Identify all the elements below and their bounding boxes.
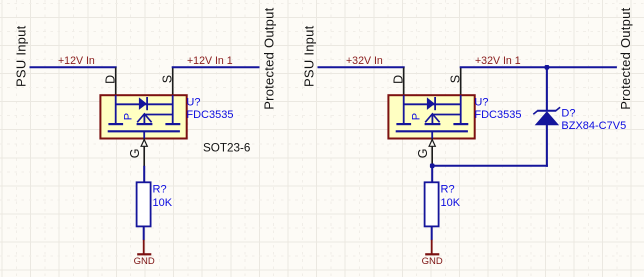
wire zener anode down — [546, 125, 548, 167]
pin G of U? — [128, 139, 147, 167]
transistor U? FDC3535 (P-channel MOSFET, yellow body) — [388, 95, 474, 138]
svg-text:P: P — [411, 113, 423, 120]
svg-text:Protected Output: Protected Output — [618, 7, 633, 109]
svg-text:+12V In 1: +12V In 1 — [187, 55, 233, 67]
junction node on +32V In 1 net — [545, 65, 550, 70]
svg-text:S: S — [160, 75, 174, 83]
ground GND power port — [134, 240, 155, 267]
ground GND power port — [422, 240, 443, 267]
resistor R? — [425, 182, 439, 226]
svg-text:U?: U? — [186, 96, 200, 108]
wire +12V In net — [30, 66, 117, 68]
svg-text:D?: D? — [561, 107, 575, 119]
svg-text:S: S — [448, 75, 462, 83]
svg-text:U?: U? — [474, 96, 488, 108]
wire gate to resistor — [431, 166, 433, 183]
svg-text:D: D — [391, 75, 405, 84]
wire +12V In 1 net — [172, 66, 260, 68]
svg-text:GND: GND — [422, 256, 443, 267]
pin D of U? — [391, 68, 405, 96]
junction node at gate of U? — [430, 164, 435, 169]
svg-text:Protected Output: Protected Output — [262, 7, 277, 109]
svg-text:FDC3535: FDC3535 — [186, 109, 233, 121]
svg-text:10K: 10K — [441, 197, 461, 209]
svg-text:+32V In 1: +32V In 1 — [475, 55, 521, 67]
wire +32V In net — [318, 66, 405, 68]
wire junction to zener cathode — [546, 67, 548, 111]
wire resistor to GND — [431, 226, 433, 240]
wire zener to gate node — [432, 165, 548, 167]
wire resistor to GND — [143, 226, 145, 240]
wire gate to resistor — [143, 166, 145, 183]
svg-text:G: G — [128, 149, 142, 159]
svg-text:P: P — [123, 113, 135, 120]
svg-text:D: D — [103, 75, 117, 84]
svg-text:BZX84-C7V5: BZX84-C7V5 — [561, 120, 626, 132]
svg-text:+12V In: +12V In — [58, 55, 95, 67]
diode D? BZX84-C7V5 (zener) — [533, 107, 560, 125]
svg-text:SOT23-6: SOT23-6 — [203, 142, 250, 155]
svg-text:FDC3535: FDC3535 — [474, 109, 521, 121]
svg-text:PSU Input: PSU Input — [302, 25, 317, 87]
svg-text:R?: R? — [153, 184, 167, 196]
svg-text:10K: 10K — [153, 197, 173, 209]
svg-text:+32V In: +32V In — [346, 55, 383, 67]
svg-text:R?: R? — [441, 184, 455, 196]
resistor R? — [137, 182, 151, 226]
svg-text:GND: GND — [134, 256, 155, 267]
transistor U? FDC3535 (P-channel MOSFET, yellow body) — [100, 95, 186, 138]
svg-text:PSU Input: PSU Input — [14, 25, 29, 87]
pin D of U? — [103, 68, 117, 96]
pin S of U? — [448, 68, 462, 96]
pin G of U? — [416, 139, 435, 167]
wire +32V In 1 net — [460, 66, 617, 68]
svg-text:G: G — [416, 149, 430, 159]
pin S of U? — [160, 68, 174, 96]
